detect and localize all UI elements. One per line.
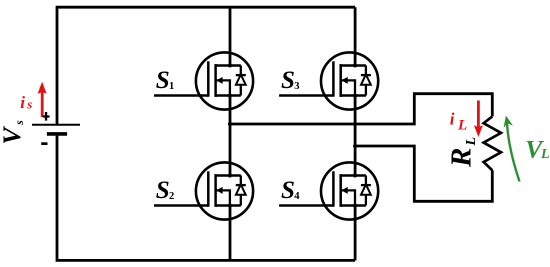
svg-text:4: 4 <box>294 191 300 202</box>
svg-text:R: R <box>446 148 478 168</box>
svg-text:V: V <box>0 126 26 145</box>
svg-text:L: L <box>464 137 479 147</box>
svg-text:S: S <box>281 177 295 204</box>
svg-text:s: s <box>14 120 26 126</box>
svg-text:s: s <box>26 96 32 111</box>
svg-text:3: 3 <box>294 81 299 92</box>
svg-text:i: i <box>20 93 25 112</box>
svg-text:1: 1 <box>169 81 174 92</box>
svg-text:i: i <box>450 110 455 129</box>
svg-text:S: S <box>156 67 170 94</box>
svg-text:L: L <box>540 147 550 162</box>
svg-text:S: S <box>156 177 170 204</box>
svg-text:S: S <box>281 67 295 94</box>
svg-text:2: 2 <box>169 191 174 202</box>
svg-text:L: L <box>457 117 467 133</box>
